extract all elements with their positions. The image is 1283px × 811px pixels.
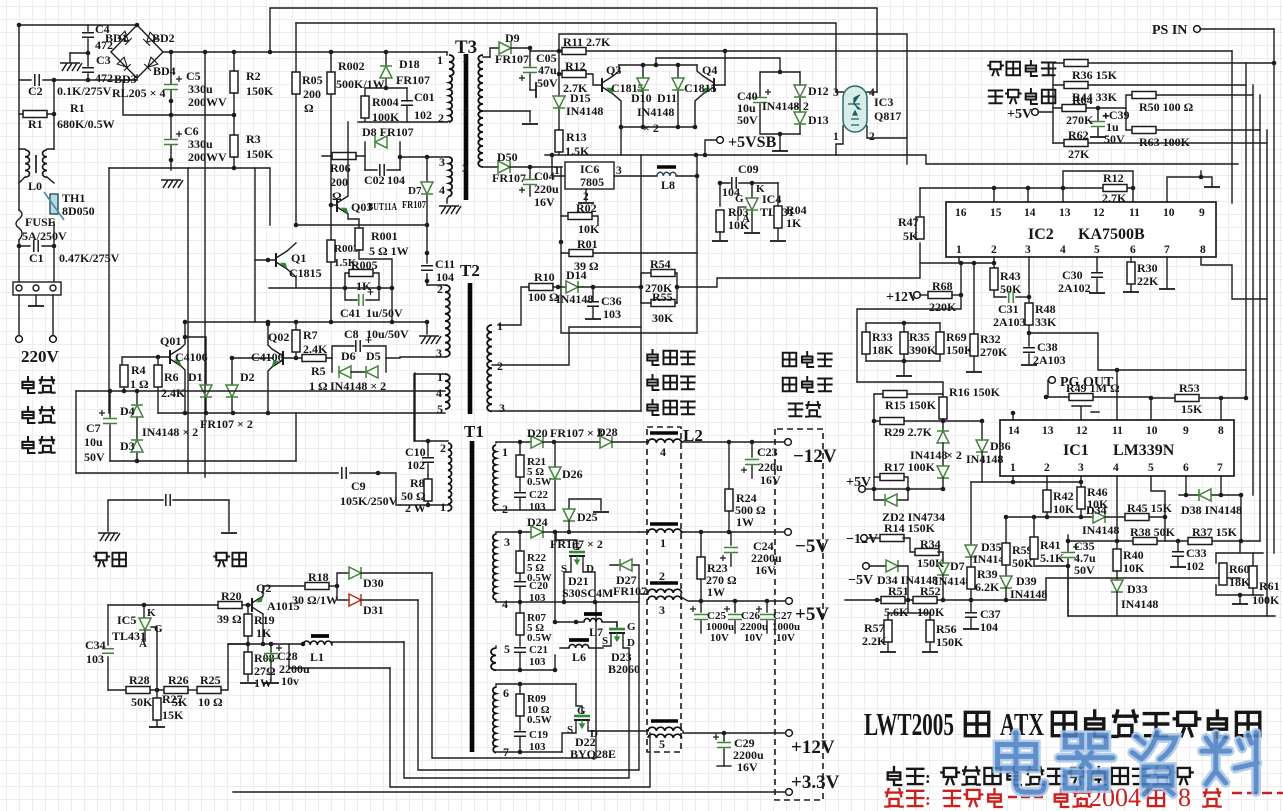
capacitor C26 2200u (724, 601, 768, 644)
zener ZD2 IN4734 (874, 489, 945, 524)
capacitor C5 330u (164, 50, 227, 115)
wire x641 (640, 155, 642, 411)
svg-text:22K: 22K (1137, 274, 1159, 288)
svg-text:D12: D12 (808, 84, 829, 98)
diode D11 (657, 63, 684, 127)
svg-text:ATX: ATX (1000, 706, 1044, 742)
svg-text:4: 4 (502, 597, 508, 611)
resistor R62 27K (1053, 128, 1267, 161)
svg-text:R10: R10 (534, 270, 555, 284)
svg-text:7: 7 (1217, 462, 1223, 474)
svg-text:2: 2 (497, 359, 503, 373)
terminal +5V top (1007, 107, 1053, 122)
svg-text:× 2: × 2 (946, 448, 962, 462)
svg-text:2.2K: 2.2K (862, 634, 887, 648)
wire to T2 winding2 bottom (386, 357, 400, 359)
svg-text:D11: D11 (657, 91, 677, 105)
diode D34 IN4148 (IC1) (1004, 503, 1120, 537)
svg-text:30K: 30K (652, 311, 674, 325)
svg-text:Q01: Q01 (160, 334, 181, 348)
diode D8 FR107 (362, 125, 414, 170)
resistor R02 10K (561, 167, 600, 236)
wire x108 with C34 (107, 605, 109, 690)
svg-text:R32: R32 (980, 332, 1001, 346)
terminal -5V (848, 563, 886, 588)
svg-text:R38 50K: R38 50K (1130, 525, 1176, 539)
svg-text:8: 8 (1200, 244, 1206, 256)
resistor R19 1K (244, 605, 275, 644)
svg-text:R45 15K: R45 15K (1127, 501, 1173, 515)
ground under C40 box (772, 132, 788, 151)
inductor L0 common-mode choke (19, 149, 54, 193)
svg-text:C5: C5 (186, 69, 201, 83)
svg-text:G: G (627, 621, 636, 633)
svg-text:10u: 10u (84, 435, 103, 449)
svg-text:L1: L1 (310, 650, 324, 664)
wire -5V rail (683, 531, 785, 533)
wire y225 (296, 224, 427, 226)
svg-text:R2: R2 (246, 69, 261, 83)
resistor R07 5ohm (516, 602, 552, 646)
diode D2 FR107 (226, 358, 255, 413)
thermistor TH1 8D050 (44, 191, 95, 220)
svg-text:D18: D18 (399, 57, 420, 71)
inductor L6 (560, 640, 603, 664)
svg-text:R27: R27 (162, 692, 183, 706)
svg-text:3: 3 (616, 165, 622, 177)
svg-text:3: 3 (504, 535, 510, 549)
T3 winding 1-2 primary (437, 52, 454, 125)
svg-text:R3: R3 (246, 132, 261, 146)
svg-text:FUSE: FUSE (25, 215, 56, 229)
wire nested return C (404, 642, 629, 778)
svg-text:−5V: −5V (795, 536, 829, 557)
svg-text:R01: R01 (577, 237, 598, 251)
svg-text:16: 16 (955, 207, 967, 219)
svg-text:7805: 7805 (580, 175, 604, 189)
svg-text:9: 9 (1199, 207, 1205, 219)
resistor R68 220K (928, 279, 963, 314)
svg-text:R002: R002 (338, 59, 365, 73)
svg-text:R1: R1 (28, 117, 43, 131)
wire x555 down (554, 532, 556, 622)
L2 winding 4 (647, 433, 683, 459)
svg-text:D1: D1 (188, 370, 203, 384)
svg-text:D38 IN4148: D38 IN4148 (1181, 503, 1242, 517)
resistor R005 1K (345, 258, 379, 293)
svg-text:50V: 50V (537, 76, 558, 90)
svg-text:100K: 100K (917, 605, 945, 619)
bridge rectifier BD1-BD4 RL205x4 (105, 23, 176, 100)
svg-text:BUT11A: BUT11A (368, 201, 397, 213)
svg-text:1W: 1W (736, 515, 754, 529)
diode D1 FR107 (185, 337, 212, 413)
wire R38 R37 row y541 (1068, 476, 1260, 549)
resistor R12 2.7K (osc) (1102, 171, 1127, 205)
svg-text:D14: D14 (566, 268, 587, 282)
resistor R51 5.6K (881, 584, 909, 619)
svg-text:2A103: 2A103 (1033, 353, 1066, 367)
resistor R37 15K (1188, 525, 1238, 545)
wire x697 (696, 155, 698, 333)
resistor R22 5ohm (516, 532, 552, 584)
resistor R4 1ohm (120, 363, 149, 391)
wire rail y322 (188, 321, 427, 323)
svg-text:50V: 50V (737, 113, 758, 127)
svg-text:R04: R04 (786, 203, 807, 217)
shunt reg IC4 TL431 (735, 183, 794, 233)
capacitor C09 104 (718, 162, 759, 206)
svg-text:R17 100K: R17 100K (884, 460, 936, 474)
wire bus y51 (530, 50, 1232, 52)
svg-text:C23: C23 (757, 445, 778, 459)
resistor R52 100K (913, 584, 945, 619)
svg-text:R8: R8 (410, 476, 425, 490)
transistor Q02 C4106 (251, 322, 296, 413)
svg-text:220u: 220u (534, 182, 559, 196)
resistor R13 1.5K (555, 130, 590, 158)
resistor R30 22K (1123, 257, 1159, 292)
T3 winding 3-4 (439, 155, 452, 197)
svg-text:8: 8 (1178, 783, 1191, 811)
watermark char zi (1132, 733, 1176, 794)
wire pin stubs top (1013, 370, 1221, 420)
capacitor C2 (28, 74, 112, 98)
capacitor C10 102 (405, 439, 434, 475)
wire bus above IC2 y188 (920, 188, 1133, 202)
svg-text:4: 4 (1113, 462, 1119, 474)
svg-text:FR107: FR107 (495, 52, 529, 66)
svg-text:102: 102 (1186, 559, 1204, 573)
svg-text:D5: D5 (366, 349, 381, 363)
capacitor C24 2200u (720, 532, 782, 577)
IC2 KA7500B (946, 202, 1216, 257)
svg-text:D33: D33 (1127, 582, 1148, 596)
resistor R003 1.5K (327, 205, 359, 322)
svg-text:G: G (735, 193, 744, 205)
wire +5V rail (699, 599, 704, 604)
wire rail below IC2 y263 (920, 257, 994, 263)
svg-text:50K: 50K (131, 695, 153, 709)
capacitor C19 103 (514, 729, 548, 753)
svg-text:15K: 15K (162, 708, 184, 722)
svg-text:IC5: IC5 (117, 613, 136, 627)
svg-text:R20: R20 (221, 589, 242, 603)
ground under C6 (161, 180, 183, 188)
svg-text:5: 5 (1094, 244, 1100, 256)
svg-text:220K: 220K (929, 300, 957, 314)
svg-text:K: K (147, 607, 156, 619)
svg-text:R35: R35 (909, 330, 930, 344)
svg-text:18K: 18K (1229, 575, 1251, 589)
svg-text:2 W: 2 W (405, 501, 426, 515)
T1 secondary winding 5 area (491, 642, 557, 672)
L2 winding 2-3 (648, 569, 786, 617)
svg-text:× 2: × 2 (643, 121, 659, 135)
ground hot (94, 533, 126, 566)
svg-text:1K: 1K (786, 216, 802, 230)
diode D12 (794, 72, 829, 112)
T2 winding 1-4-5 (76, 370, 450, 441)
wire top nest y34 (559, 34, 907, 164)
label integrated output (988, 61, 1055, 104)
svg-text:R30: R30 (1137, 261, 1158, 275)
capacitor C38 2A103 (1021, 333, 1066, 367)
svg-text:IC1: IC1 (1063, 442, 1089, 459)
capacitor C34 103 (85, 638, 114, 666)
svg-text:R05: R05 (302, 73, 323, 87)
ground (60, 53, 88, 71)
svg-text:Q1: Q1 (291, 251, 306, 265)
capacitor C01 102 (401, 88, 435, 122)
IC6 7805 (552, 155, 622, 203)
diode D6 (339, 349, 356, 378)
svg-text:LWT2005: LWT2005 (864, 706, 954, 742)
T2 winding 2-3 (400, 282, 450, 360)
resistor R2 150K (230, 50, 274, 115)
svg-text:150K: 150K (246, 147, 274, 161)
resistor R60 18K (1216, 541, 1263, 595)
capacitor C25 1000u (690, 601, 734, 644)
wire Q3Q4 collector rail (619, 58, 780, 72)
connector 220V plug (13, 282, 61, 342)
T2 secondary winding (487, 319, 641, 415)
wire rail4 y602 (496, 594, 648, 602)
svg-text:C3: C3 (96, 53, 111, 67)
svg-text:5: 5 (437, 402, 443, 416)
svg-text:C30: C30 (1062, 268, 1083, 282)
svg-text:10V: 10V (776, 632, 795, 644)
svg-text:D50: D50 (497, 150, 518, 164)
wire top rail (19, 24, 137, 26)
terminal -12V (846, 532, 880, 547)
svg-text:200: 200 (303, 87, 321, 101)
svg-text:5 Ω 1W: 5 Ω 1W (369, 244, 409, 258)
svg-text:R61: R61 (1259, 579, 1280, 593)
svg-text:4: 4 (439, 183, 445, 197)
svg-text:C4106: C4106 (251, 350, 284, 364)
svg-text:12: 12 (1076, 425, 1088, 437)
svg-text:200WV: 200WV (188, 150, 227, 164)
svg-text:50V: 50V (1104, 132, 1125, 146)
wire rail y461 (110, 460, 296, 462)
capacitor C21 103 (514, 644, 548, 670)
svg-text:50K: 50K (1000, 282, 1022, 296)
resistor R01 39ohm (559, 216, 697, 273)
diode D7 FR107 (402, 157, 433, 225)
svg-text:10K: 10K (578, 222, 600, 236)
resistor R36 15K (1053, 60, 1274, 83)
wire bridge out to bus (163, 51, 447, 53)
svg-text:BYQ28E: BYQ28E (570, 747, 616, 761)
capacitor C23 220u (741, 442, 783, 487)
svg-text:1: 1 (437, 370, 443, 384)
svg-text:5A/250V: 5A/250V (22, 229, 67, 243)
wire y288 (269, 288, 392, 322)
resistor R001 5ohm 1W (355, 228, 409, 288)
svg-text:B2060: B2060 (608, 662, 640, 676)
resistor R57 2.2K (862, 600, 930, 652)
svg-text:2: 2 (1044, 462, 1050, 474)
L2 winding 5 (648, 721, 786, 751)
transformer T3 core (464, 54, 469, 200)
svg-text:30 Ω/1W: 30 Ω/1W (292, 593, 338, 607)
svg-text:D15: D15 (570, 91, 591, 105)
svg-text:G: G (577, 705, 586, 717)
svg-text:TL431: TL431 (112, 629, 146, 643)
svg-text:13: 13 (1042, 425, 1054, 437)
svg-text:R18: R18 (308, 570, 329, 584)
ground cold (214, 533, 246, 566)
svg-text:IN4148: IN4148 (566, 104, 603, 118)
terminal +5VSB (705, 134, 777, 155)
svg-text:KA7500B: KA7500B (1078, 226, 1145, 243)
svg-text:7: 7 (1164, 244, 1170, 256)
svg-text:+5V: +5V (795, 604, 829, 625)
wire rail y616 (1068, 566, 1275, 616)
resistor R32 270K (966, 332, 1008, 372)
svg-text:Q817: Q817 (874, 109, 901, 123)
svg-text:D13: D13 (808, 113, 829, 127)
wire top nest y8 (270, 8, 877, 92)
svg-text:S: S (561, 563, 567, 575)
svg-text:D2: D2 (240, 370, 255, 384)
resistor R41 5.1K (1030, 515, 1068, 566)
svg-text:3: 3 (1078, 462, 1084, 474)
svg-text:10 Ω: 10 Ω (198, 695, 223, 709)
resistor R42 10K (1043, 476, 1075, 517)
svg-text:10: 10 (1146, 425, 1158, 437)
svg-text:C6: C6 (184, 124, 199, 138)
svg-text:100K: 100K (1252, 593, 1280, 607)
svg-text:330u: 330u (188, 82, 213, 96)
diode D34 IN4148 (877, 560, 938, 600)
svg-text:T2: T2 (460, 261, 480, 280)
svg-text:C33: C33 (1186, 546, 1207, 560)
svg-text:R48: R48 (1035, 302, 1056, 316)
svg-text:16V: 16V (760, 473, 781, 487)
diode D38 IN4148 (1179, 476, 1243, 541)
svg-text:500K/1W: 500K/1W (336, 77, 385, 91)
resistor R44 33K (1053, 82, 1246, 105)
resistor R11 2.7K (557, 35, 611, 55)
svg-text:C37: C37 (980, 607, 1001, 621)
PFC transformer L2 dashed box (647, 426, 703, 752)
capacitor C04 220u (519, 167, 559, 209)
svg-text:2: 2 (869, 131, 875, 143)
wire pin8 to right (1201, 257, 1267, 299)
svg-text:R02: R02 (576, 201, 597, 215)
resistor R43 50K (990, 263, 1022, 297)
resistor R3 150K (230, 115, 274, 168)
svg-text:104: 104 (980, 620, 998, 634)
capacitor C39 1u (1090, 108, 1130, 146)
svg-text:D: D (627, 637, 635, 649)
svg-text:R55: R55 (652, 290, 673, 304)
svg-text:3: 3 (659, 603, 665, 617)
svg-text:2A103: 2A103 (993, 315, 1026, 329)
svg-text:D25: D25 (577, 510, 598, 524)
resistor R004 (358, 86, 447, 124)
svg-text:R53: R53 (1179, 381, 1200, 395)
svg-text:C20: C20 (529, 580, 548, 592)
svg-text:IC3: IC3 (874, 95, 893, 109)
svg-text:C01: C01 (414, 90, 435, 104)
svg-text:16V: 16V (755, 563, 776, 577)
wire nested return D (390, 668, 650, 787)
svg-text:C22: C22 (529, 489, 548, 501)
wire neutral rail (53, 80, 55, 282)
diode D31 red (337, 586, 418, 617)
svg-text:C41: C41 (340, 306, 361, 320)
svg-text:R47: R47 (898, 215, 919, 229)
resistor R20 39ohm (217, 589, 250, 626)
resistor R35 390K (900, 321, 937, 364)
wire pin1 pin3 rail y482 (971, 476, 1081, 482)
diode D7 IN4148 (934, 559, 971, 600)
resistor R25 10ohm (197, 644, 248, 709)
svg-text:R62: R62 (1068, 128, 1089, 142)
svg-text:8D050: 8D050 (62, 204, 95, 218)
svg-text:13: 13 (1059, 207, 1071, 219)
wire nested return B (418, 597, 639, 770)
wire x255 x188 (188, 168, 255, 473)
svg-text:680K/0.5W: 680K/0.5W (57, 117, 115, 131)
svg-text:D39: D39 (1016, 574, 1037, 588)
resistor R7 2.4K (292, 322, 328, 358)
transistor Q1 C1815 (255, 243, 322, 288)
svg-text:D36: D36 (990, 439, 1011, 453)
svg-text:9: 9 (1183, 425, 1189, 437)
diode D18 FR107 (380, 50, 430, 88)
T1 secondary winding 3-4 (493, 532, 510, 611)
svg-text:4: 4 (436, 386, 442, 400)
L2 winding 1 (639, 524, 683, 550)
svg-text:6.2K: 6.2K (975, 580, 1000, 594)
svg-text:FR107: FR107 (613, 584, 647, 598)
svg-text:5K: 5K (903, 229, 919, 243)
svg-text:0.5W: 0.5W (527, 632, 552, 644)
wire rail y155-164 (545, 155, 1238, 164)
ground under R35 (896, 361, 912, 376)
svg-text:3: 3 (439, 155, 445, 169)
svg-text:5: 5 (659, 737, 665, 751)
svg-text:11: 11 (1112, 425, 1123, 437)
wire x205 bus down (203, 50, 208, 55)
svg-text:R64: R64 (1072, 93, 1093, 107)
resistor R23 270ohm (697, 532, 737, 601)
svg-text:4: 4 (1060, 244, 1066, 256)
capacitor C31 2A103 (993, 291, 1031, 329)
svg-text:1K: 1K (356, 279, 372, 293)
svg-text:C38: C38 (1037, 340, 1058, 354)
resistor R64 270K (1053, 93, 1126, 127)
resistor R47 5K (898, 188, 924, 243)
fuse FUSE 5A/250V (16, 210, 67, 243)
transformer T1 core (470, 441, 475, 752)
transistor Q03 BUT11A (329, 122, 397, 228)
svg-text:10V: 10V (744, 632, 763, 644)
wire right edge verticals (1231, 51, 1233, 203)
svg-text:105K/250V: 105K/250V (340, 494, 398, 508)
svg-text:2.7K: 2.7K (1102, 191, 1127, 205)
wire y333 to y370 (1029, 333, 1246, 370)
svg-text:R16 150K: R16 150K (949, 385, 1001, 399)
svg-text:14: 14 (1008, 425, 1020, 437)
svg-text:S: S (567, 724, 573, 736)
svg-text:BD3: BD3 (114, 72, 137, 86)
capacitor C20 103 (514, 579, 548, 604)
